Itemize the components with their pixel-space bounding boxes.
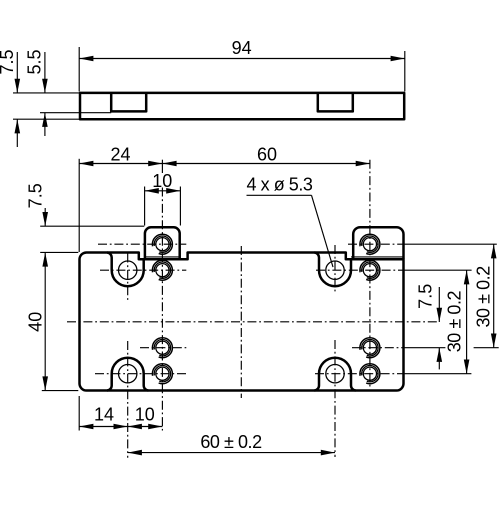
svg-text:10: 10	[135, 404, 155, 424]
svg-text:30 ± 0.2: 30 ± 0.2	[444, 291, 464, 353]
svg-text:94: 94	[232, 38, 252, 58]
svg-text:7.5: 7.5	[26, 183, 46, 208]
svg-text:60: 60	[257, 144, 277, 164]
svg-text:24: 24	[110, 145, 130, 165]
svg-text:40: 40	[25, 312, 45, 332]
svg-text:14: 14	[94, 404, 114, 424]
svg-text:5.5: 5.5	[24, 49, 44, 74]
svg-text:10: 10	[152, 171, 172, 191]
svg-text:7.5: 7.5	[0, 49, 17, 74]
svg-text:7.5: 7.5	[416, 284, 436, 309]
svg-text:4 x ø 5.3: 4 x ø 5.3	[247, 175, 313, 195]
svg-text:30 ± 0.2: 30 ± 0.2	[473, 266, 493, 328]
svg-text:60 ± 0.2: 60 ± 0.2	[200, 432, 262, 452]
